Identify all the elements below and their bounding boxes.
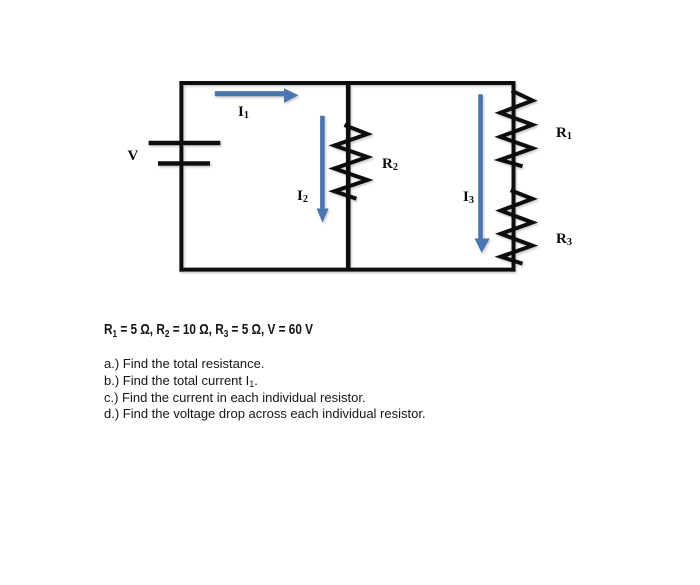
question c — [104, 390, 366, 405]
wire: left (through battery) — [179, 81, 183, 272]
question a — [104, 356, 264, 371]
battery V: long plate — [149, 141, 221, 146]
resistor R1 (upper zigzag on right wire) — [500, 91, 532, 167]
label R3 — [556, 231, 572, 248]
wire: middle branch (junction at top to junction at bottom) — [346, 83, 351, 270]
wire: right — [512, 81, 516, 272]
label V (voltage source) — [128, 148, 139, 165]
label R1 — [556, 125, 572, 142]
current arrow I3 (right loop, pointing down) — [475, 94, 490, 253]
question b — [104, 373, 258, 388]
current arrow I1 (top, pointing right) — [215, 88, 299, 103]
label I2 — [297, 188, 308, 205]
label R2 — [382, 156, 398, 173]
label I1 — [238, 104, 249, 121]
current arrow I2 (middle branch, pointing down) — [317, 116, 329, 223]
question d — [104, 406, 426, 421]
wire: top (from left corner to right corner) — [179, 81, 515, 85]
resistor R2 (zigzag on middle branch) — [334, 125, 367, 199]
wire: bottom — [179, 268, 515, 272]
label I3 — [463, 189, 474, 206]
resistor R3 (lower zigzag on right wire) — [501, 190, 533, 263]
battery V: short plate — [158, 161, 210, 166]
given values line — [104, 321, 313, 338]
